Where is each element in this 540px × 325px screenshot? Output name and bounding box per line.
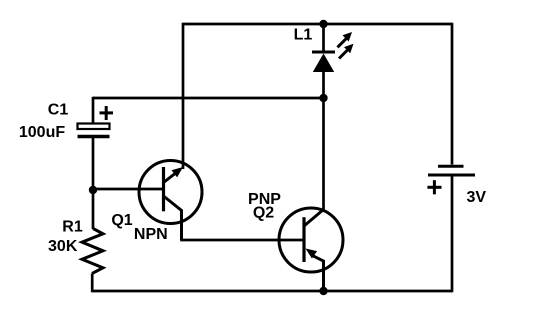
LED L1 emission arrow upper [338, 32, 353, 47]
transistor Q1 emitter lead [164, 196, 182, 240]
wire battery top lead [451, 23, 454, 165]
svg-text:Q2: Q2 [253, 205, 274, 222]
LED L1 cathode bar [312, 51, 335, 54]
transistor Q2 circle [279, 208, 343, 272]
svg-text:Q1: Q1 [111, 212, 132, 229]
wire Q1 base [93, 188, 164, 191]
wire R1 top lead [92, 190, 95, 229]
svg-text:30K: 30K [48, 238, 78, 255]
wire R1 bottom lead [91, 274, 94, 293]
transistor Q2 collector lead [304, 210, 324, 227]
capacitor C1 bottom plate [78, 135, 110, 138]
battery plus sign [427, 180, 441, 194]
battery short plate (negative) [438, 165, 464, 168]
wire bottom rail [92, 290, 452, 293]
resistor R1 zigzag [82, 229, 103, 274]
wire LED anode from top rail [322, 24, 325, 52]
node junction dot bottom rail [319, 287, 327, 295]
transistor Q2 emitter lead with arrow [306, 249, 324, 292]
battery long plate (positive) [428, 174, 475, 177]
svg-text:L1: L1 [294, 27, 313, 44]
LED L1 emission arrow lower [339, 44, 354, 59]
node junction dot top rail / LED [319, 20, 327, 28]
wire battery bottom lead [451, 177, 454, 293]
wire Q2 collector to LED node [322, 98, 325, 210]
capacitor C1 plus sign [100, 106, 114, 120]
transistor Q1 collector lead with arrow [164, 167, 184, 183]
node junction dot mid [319, 94, 327, 102]
wire Q1 emitter to Q2 base [180, 239, 304, 242]
wire C1 top lead [92, 97, 95, 124]
svg-text:R1: R1 [62, 219, 83, 236]
svg-text:100uF: 100uF [19, 124, 65, 141]
capacitor C1 top plate (hollow) [78, 124, 110, 130]
wire left vertical from top rail to Q1 collector [182, 23, 185, 169]
transistor Q2 base bar [302, 217, 305, 262]
transistor Q1 circle [139, 161, 202, 224]
svg-text:3V: 3V [467, 189, 487, 206]
svg-text:NPN: NPN [134, 226, 168, 243]
node junction dot C1/R1/base [89, 186, 97, 194]
wire LED to mid junction [322, 72, 325, 98]
wire mid horizontal from C1 to LED node [93, 97, 324, 100]
transistor Q1 base bar [162, 167, 165, 211]
svg-text:C1: C1 [48, 102, 69, 119]
LED L1 triangle [313, 54, 334, 73]
wire C1 bottom lead [92, 138, 95, 190]
wire top rail [183, 23, 452, 26]
